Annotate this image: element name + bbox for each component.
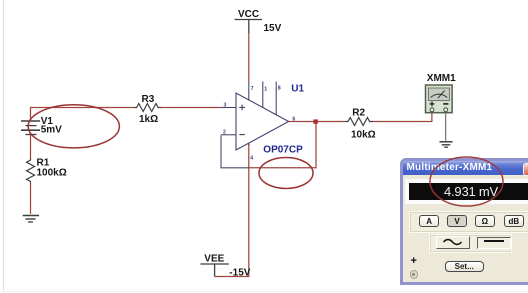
- wire: op-amp pin4 to VEE corner: [215, 144, 249, 277]
- svg-text:1kΩ: 1kΩ: [139, 114, 158, 125]
- plus terminal label: [411, 255, 417, 267]
- Set button: [445, 261, 484, 272]
- multimeter XMM1 icon: [426, 85, 453, 113]
- button A: [419, 215, 438, 227]
- wire: battery bottom to R1 top: [30, 135, 32, 159]
- wire: R2 to XMM1 plus terminal: [373, 112, 432, 122]
- svg-text:2: 2: [223, 130, 226, 136]
- power VEE symbol: [200, 264, 228, 277]
- wire: feedback from pin2 down and around to output node: [221, 135, 249, 168]
- node: output junction dot: [313, 119, 317, 123]
- svg-text:3: 3: [224, 102, 227, 108]
- wire: op-amp output to R2: [289, 121, 345, 123]
- svg-text:15V: 15V: [264, 23, 282, 34]
- button DC (line) pressed: [477, 237, 511, 249]
- svg-text:R2: R2: [352, 108, 365, 119]
- wire: XMM1 minus terminal to ground: [445, 112, 447, 141]
- svg-text:OP07CP: OP07CP: [263, 144, 303, 155]
- battery V1: [21, 121, 40, 135]
- button AC (sine) raised: [436, 236, 470, 249]
- dialog close button: [523, 163, 528, 177]
- op-amp U1 body: [236, 93, 289, 150]
- svg-text:6: 6: [292, 116, 295, 122]
- wire: VCC to op-amp pin7: [248, 33, 250, 82]
- plus terminal socket: [410, 270, 419, 279]
- power VCC symbol: [235, 20, 263, 34]
- svg-text:VCC: VCC: [238, 9, 259, 20]
- multimeter dialog window Multimeter-XMM1: [400, 158, 528, 285]
- svg-text:5mV: 5mV: [41, 125, 62, 136]
- button Ohm: [475, 215, 494, 227]
- svg-text:XMM1: XMM1: [427, 73, 456, 84]
- svg-text:10kΩ: 10kΩ: [351, 129, 376, 140]
- svg-text:-15V: -15V: [229, 268, 250, 279]
- resistor R2: [345, 118, 373, 126]
- svg-text:U1: U1: [291, 84, 304, 95]
- op-amp pin stubs: [221, 82, 276, 146]
- dialog title bar: [403, 161, 528, 175]
- svg-text:R3: R3: [142, 94, 155, 105]
- button dB: [504, 215, 523, 227]
- ground (below R1): [23, 216, 39, 223]
- svg-text:8: 8: [278, 86, 281, 92]
- button V (selected): [447, 215, 466, 227]
- svg-text:1: 1: [264, 87, 267, 93]
- wire: feedback lower run to output node: [249, 122, 316, 168]
- annotation ellipse around V1 source: [28, 105, 119, 148]
- wire: R3 to op-amp pin3: [161, 107, 221, 109]
- svg-text:100kΩ: 100kΩ: [37, 168, 67, 179]
- resistor R1: [27, 159, 35, 183]
- resistor R3: [134, 104, 161, 112]
- ground (below XMM1): [440, 142, 453, 147]
- op-amp input polarity marks: [239, 105, 245, 135]
- svg-text:7: 7: [251, 86, 254, 92]
- canvas edge line: [3, 0, 5, 292]
- waveform buttons panel: [429, 234, 512, 253]
- wire: R1 bottom to ground: [30, 183, 32, 215]
- wire: battery top to R3 to op-amp +in (net at y=107.5): [31, 108, 134, 122]
- annotation ellipse around OP07CP: [259, 158, 313, 189]
- display sunken frame: [405, 179, 528, 205]
- svg-text:VEE: VEE: [204, 254, 224, 265]
- mode buttons panel: [409, 211, 528, 234]
- display readout 4.931 mV: [409, 183, 528, 200]
- svg-text:4: 4: [250, 155, 253, 161]
